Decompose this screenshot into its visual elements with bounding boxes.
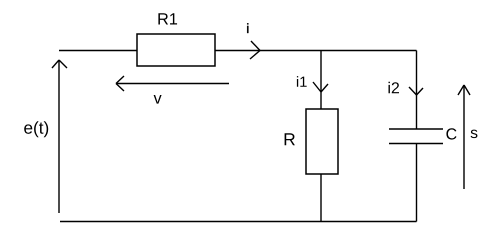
voltage arrow v shaft	[116, 83, 229, 85]
capacitor C bottom plate	[389, 143, 443, 145]
source arrow e(t) head	[52, 60, 67, 68]
label v	[154, 95, 162, 104]
label s	[471, 130, 478, 139]
current arrow i2 head	[409, 87, 423, 95]
wire R to bottom	[320, 174, 322, 222]
label R	[285, 133, 295, 145]
output arrow s shaft	[463, 85, 465, 189]
label i1	[297, 76, 307, 87]
resistor R1	[137, 34, 215, 66]
current arrow i1 head	[313, 82, 328, 92]
current arrow i head	[250, 41, 260, 59]
wire right branch vertical bottom	[416, 144, 418, 222]
label i	[247, 23, 248, 33]
wire top-left segment	[59, 50, 137, 52]
voltage arrow v head	[116, 76, 124, 91]
label e(t)	[24, 121, 48, 137]
label R1	[158, 13, 177, 24]
label C	[446, 128, 456, 139]
wire bottom	[60, 221, 417, 223]
output arrow s head	[458, 85, 470, 95]
wire top-right segment	[215, 50, 417, 52]
source arrow e(t) shaft	[58, 60, 60, 213]
wire branch i1 vertical	[320, 51, 322, 110]
label i2	[389, 82, 400, 94]
wire right branch vertical top	[416, 51, 418, 130]
capacitor C top plate	[389, 128, 443, 130]
resistor R	[306, 109, 338, 174]
